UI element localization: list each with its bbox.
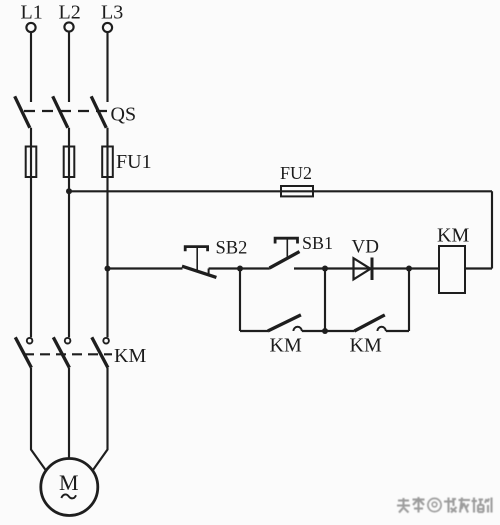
switch QS pole 2 blade: [53, 96, 68, 128]
fuse FU1 pole 2: [64, 147, 75, 178]
label KM main contacts: [114, 345, 146, 367]
svg-text:L1: L1: [21, 1, 43, 23]
svg-text:KM: KM: [270, 335, 302, 357]
fuse FU1 pole 1: [26, 147, 37, 178]
label QS: [111, 103, 137, 125]
switch QS pole 1 blade: [15, 96, 30, 128]
wire node A to SB1: [240, 267, 270, 269]
label L2: [59, 1, 81, 23]
label KM aux 1: [270, 335, 302, 357]
fuse FU2: [281, 186, 313, 196]
svg-text:KM: KM: [350, 335, 382, 357]
contactor KM main contact pole 2: [53, 337, 70, 367]
KM main contacts linkage dashed line: [24, 353, 112, 355]
wire L3 tap to SB2: [108, 267, 183, 269]
wire control top line from L2 tap to right edge: [69, 190, 492, 192]
wire L1 KM contact to motor: [31, 368, 46, 471]
svg-text:L2: L2: [59, 1, 81, 23]
contactor KM main contact pole 1: [15, 337, 32, 367]
label VD: [352, 236, 379, 257]
wire node B through diode to coil: [325, 267, 439, 269]
contact KM auxiliary 1 (self-hold): [268, 315, 302, 331]
junction dot at L3 control tap: [105, 266, 111, 272]
node C junction dot: [406, 266, 412, 272]
motor M: [41, 459, 98, 516]
label FU2: [280, 163, 312, 183]
svg-text:KM: KM: [437, 225, 469, 247]
svg-text:SB2: SB2: [216, 239, 248, 259]
wire node D to KM aux contact 2: [325, 330, 355, 332]
svg-text:FU1: FU1: [116, 151, 152, 173]
terminal L3: [103, 23, 112, 32]
motor AC tilde symbol: [61, 494, 76, 498]
wire L3 terminal to QS: [106, 32, 108, 102]
pushbutton SB2 normally closed: [182, 247, 216, 278]
svg-text:VD: VD: [352, 236, 379, 257]
wire SB1 to node B: [294, 267, 325, 269]
wire branch up to node C: [408, 269, 410, 332]
contact KM auxiliary 2 (diode bypass): [354, 315, 385, 331]
label L1: [21, 1, 43, 23]
node B junction dot: [322, 266, 328, 272]
QS linkage dashed line: [24, 110, 110, 112]
wire right edge vertical: [491, 191, 493, 268]
label SB1: [302, 233, 333, 253]
svg-text:FU2: FU2: [280, 163, 312, 183]
node D junction dot: [322, 328, 328, 334]
wire node A branch to KM aux contact 1: [240, 330, 268, 332]
label M: [59, 470, 79, 495]
junction dot at L2 control tap: [66, 188, 72, 194]
wire L1 QS to FU1 and down to KM contact: [30, 128, 32, 337]
wire L2 QS to FU1 and down to KM contact: [68, 128, 70, 337]
fuse FU1 pole 3: [102, 147, 113, 178]
label L3: [101, 1, 123, 23]
wire L3 QS to FU1 and down to KM contact: [106, 128, 108, 337]
wire branch down at node A: [239, 269, 241, 332]
wire KM aux 2 to right branch: [386, 330, 409, 332]
contactor KM main contact pole 3: [92, 337, 109, 367]
diode VD: [354, 258, 373, 281]
wire right edge to KM coil right side: [465, 267, 492, 269]
svg-text:L3: L3: [101, 1, 123, 23]
wire L2 KM contact to motor: [68, 368, 70, 459]
wire KM aux 1 to node D: [302, 330, 325, 332]
svg-text:KM: KM: [114, 345, 146, 367]
wire L2 terminal to QS: [68, 32, 70, 102]
label KM aux 2: [350, 335, 382, 357]
terminal L1: [26, 23, 35, 32]
svg-text:SB1: SB1: [302, 233, 333, 253]
wire branch down at node B: [324, 269, 326, 332]
contactor coil KM: [439, 246, 465, 293]
wire L1 terminal to QS: [30, 32, 32, 102]
wire L3 KM contact to motor: [93, 368, 108, 471]
label KM coil: [437, 225, 469, 247]
wire SB2 to node A: [209, 267, 240, 269]
svg-text:QS: QS: [111, 103, 137, 125]
switch QS pole 3 blade: [91, 96, 106, 128]
node A junction dot: [237, 266, 243, 272]
label SB2: [216, 239, 248, 259]
pushbutton SB1 normally open: [270, 238, 300, 268]
terminal L2: [64, 22, 73, 31]
watermark: [397, 497, 492, 513]
svg-text:M: M: [59, 470, 79, 495]
label FU1: [116, 151, 152, 173]
